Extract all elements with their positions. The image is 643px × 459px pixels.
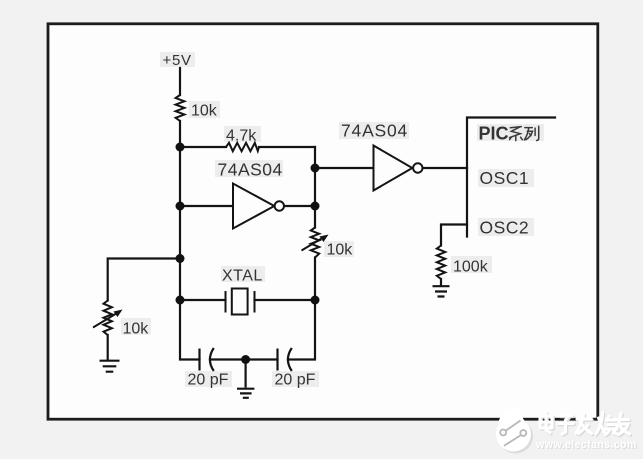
svg-text:10k: 10k [123, 321, 150, 338]
svg-text:74AS04: 74AS04 [341, 121, 408, 141]
svg-text:XTAL: XTAL [222, 268, 263, 285]
svg-text:100k: 100k [453, 259, 489, 276]
svg-text:10k: 10k [327, 242, 354, 259]
svg-text:www.elecfans.com: www.elecfans.com [535, 439, 637, 451]
svg-text:OSC1: OSC1 [480, 168, 530, 188]
svg-text:20 pF: 20 pF [275, 372, 316, 389]
svg-text:OSC2: OSC2 [480, 218, 530, 238]
svg-text:PIC: PIC [479, 124, 509, 144]
svg-text:74AS04: 74AS04 [218, 160, 283, 180]
svg-text:4.7k: 4.7k [226, 128, 257, 145]
svg-text:10k: 10k [191, 103, 218, 120]
svg-text:20 pF: 20 pF [188, 372, 229, 389]
svg-text:+5V: +5V [163, 52, 192, 69]
